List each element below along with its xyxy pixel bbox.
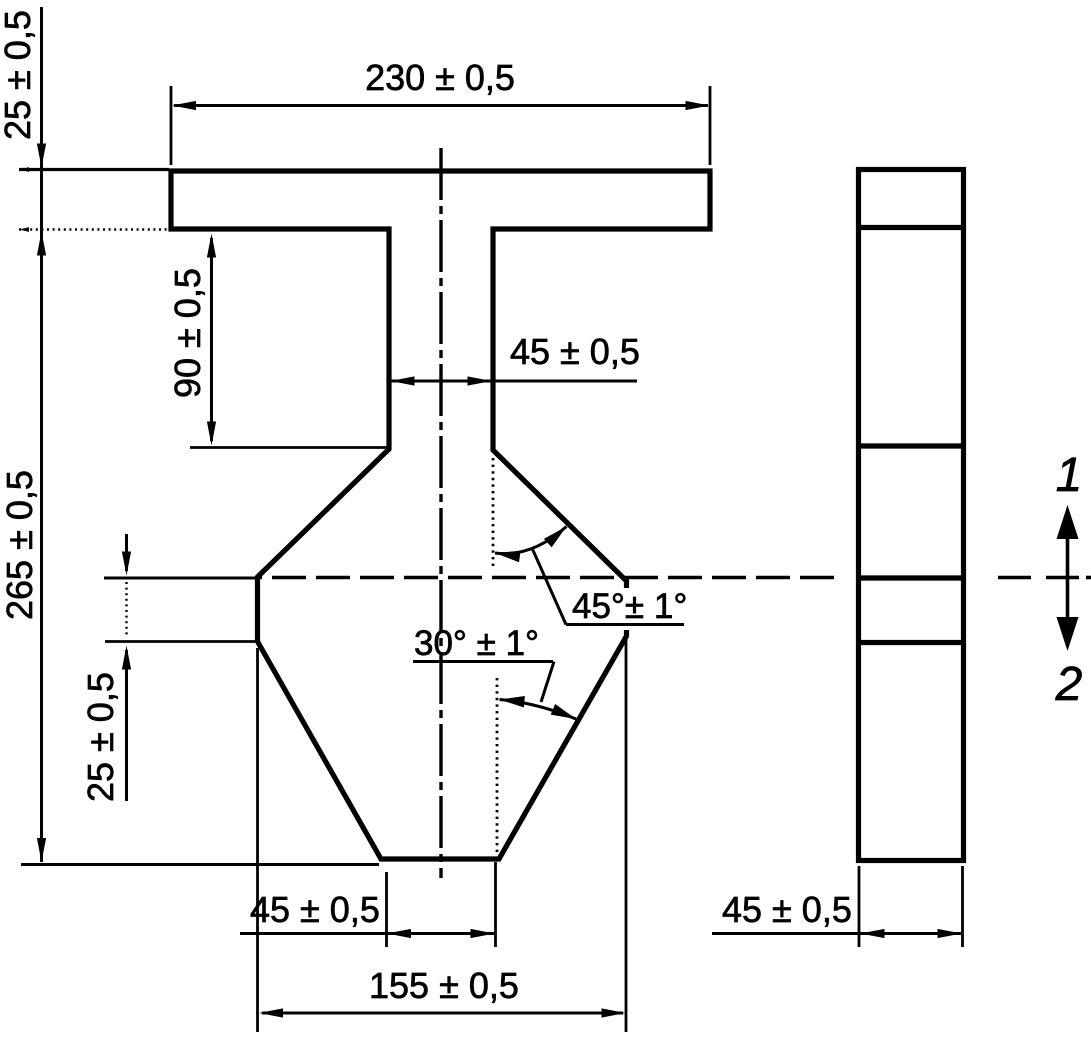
svg-text:45 ± 0,5: 45 ± 0,5 bbox=[722, 889, 852, 930]
svg-text:90 ± 0,5: 90 ± 0,5 bbox=[167, 268, 208, 398]
svg-text:45 ± 0,5: 45 ± 0,5 bbox=[250, 889, 380, 930]
svg-text:45°± 1°: 45°± 1° bbox=[572, 587, 687, 626]
svg-text:25 ± 0,5: 25 ± 0,5 bbox=[80, 672, 121, 802]
svg-text:2: 2 bbox=[1055, 658, 1083, 711]
svg-text:45 ± 0,5: 45 ± 0,5 bbox=[510, 331, 640, 372]
svg-text:155 ± 0,5: 155 ± 0,5 bbox=[369, 965, 519, 1006]
svg-text:230 ± 0,5: 230 ± 0,5 bbox=[365, 57, 515, 98]
svg-text:30° ± 1°: 30° ± 1° bbox=[414, 624, 539, 663]
svg-text:265 ± 0,5: 265 ± 0,5 bbox=[0, 470, 40, 620]
svg-text:25 ± 0,5: 25 ± 0,5 bbox=[0, 10, 38, 140]
svg-text:1: 1 bbox=[1056, 449, 1083, 502]
